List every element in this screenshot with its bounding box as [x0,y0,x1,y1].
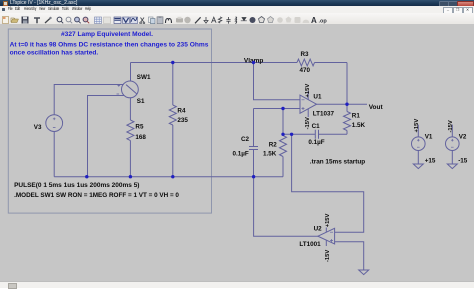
switch SW1 [117,74,151,105]
svg-text:V3: V3 [34,124,42,131]
wire SW1 to R5 [129,98,131,177]
icon zoom extents [83,17,89,23]
wire R2 leads [282,134,284,176]
capacitor C2 [233,136,259,158]
icon zoom in [57,17,63,23]
junction R4 top [171,61,174,64]
capacitor C1 [308,123,324,146]
comment text line 3 [10,50,99,57]
wire SW1 lower stub [88,96,125,177]
svg-text:PULSE(0 1 5ms 1us 1us 200ms 20: PULSE(0 1 5ms 1us 1us 200ms 200ms 5) [14,182,139,189]
junction rail SW1 stub [85,175,88,178]
icon move [259,16,265,22]
svg-text:Vout: Vout [369,104,384,111]
svg-text:+15V: +15V [305,84,311,98]
svg-text:R3: R3 [301,51,310,58]
svg-text:R5: R5 [135,124,144,131]
junction rail C2 [252,175,255,178]
svg-text:235: 235 [177,117,188,124]
icon diode tool [241,17,247,20]
wire C2 branch [253,109,255,177]
icon save [22,16,29,23]
svg-text:1.5K: 1.5K [352,122,366,129]
svg-text:C1: C1 [312,123,321,130]
op-amp U1 LT1037 [300,84,335,130]
icon mirror grayed [303,19,310,22]
resistor R4 [169,105,188,125]
icon label tool [212,17,217,23]
icon resistor tool [218,16,221,22]
svg-text:V1: V1 [425,134,433,141]
svg-text:LT1037: LT1037 [313,111,335,118]
ground below U2 [359,270,369,275]
icon inductor tool [236,17,237,24]
svg-text:U1: U1 [313,94,322,101]
wire V1 stubs [417,125,419,164]
node Vlamp [244,58,264,65]
directive .tran [310,159,365,166]
op-amp U2 LT1001 [299,213,334,262]
wire top rail [131,62,348,64]
icon new schematic [3,16,9,23]
svg-text:#327 Lamp Equivelent Model.: #327 Lamp Equivelent Model. [61,31,153,38]
voltage source V2 [446,120,468,165]
junction output node [345,103,348,106]
comment text title [61,31,153,38]
icon zoom out [66,17,72,23]
icon probe [45,16,52,22]
wire C1 net [283,133,347,135]
svg-text:At t=0 it has 98 Ohms DC resis: At t=0 it has 98 Ohms DC resistance then… [10,41,209,48]
icon copy [149,17,156,24]
voltage source V1 [412,119,436,165]
wire V3 bottom [53,132,55,177]
wire U2 output to C2 net [254,177,318,237]
svg-text:+15V: +15V [414,119,420,133]
svg-text:168: 168 [135,134,146,141]
icon paste [157,16,163,24]
wire V2 stubs [451,125,453,164]
node Vout [369,104,384,111]
wire R1 leads [346,104,348,134]
icon text tool [311,16,317,25]
svg-text:-15V: -15V [325,250,331,262]
wire bottom rail [54,176,283,178]
wire R4 branch [172,63,174,177]
svg-text:R2: R2 [269,142,278,149]
wire U2 noninverting to ground [335,242,364,270]
wire Vlamp to U1 inverting input [254,63,301,100]
svg-text:once oscillation has started.: once oscillation has started. [10,50,99,57]
svg-text:+15: +15 [425,158,436,165]
svg-text:SW1: SW1 [137,74,151,81]
icon waveform pane [114,17,121,24]
junction R2 top [281,133,284,136]
wire U1 output [317,103,368,105]
icon find [166,18,172,23]
ground below V2 [447,164,457,169]
wire U1 noninverting input [254,108,301,110]
svg-text:C2: C2 [241,136,250,143]
svg-text:+15V: +15V [325,213,331,227]
icon grayed sheet [104,17,111,24]
resistor R5 [127,120,147,141]
icon control panel hammer [34,17,40,23]
wire U1 noninv to C1 net [282,109,284,135]
icon print gray [176,16,183,22]
voltage source V3 [34,115,63,132]
svg-text:V2: V2 [459,134,467,141]
svg-text:470: 470 [300,67,311,74]
icon drag [268,16,274,22]
icon redo grayed [286,16,292,22]
icon waveform V [123,17,130,24]
icon zoom area [75,17,81,23]
directive PULSE [14,182,139,189]
icon capacitor tool [226,17,230,24]
svg-text:1.5K: 1.5K [263,151,277,158]
icon cut [140,17,145,23]
svg-text:0.1µF: 0.1µF [233,151,249,158]
directive .MODEL [14,192,179,199]
icon print2 gray [184,16,190,22]
ground below V1 [413,164,423,169]
junction U2 branch [290,133,293,136]
wire R3 to output node [346,63,348,105]
junction rail R4 [171,175,174,178]
svg-text:.MODEL SW1 SW RON = 1MEG ROFF: .MODEL SW1 SW RON = 1MEG ROFF = 1 VT = 0… [14,192,179,199]
wire to U2 inverting input [292,134,364,232]
svg-text:S1: S1 [137,98,145,105]
comment border box [8,29,211,213]
icon component [250,17,256,23]
junction rail R5 [129,175,132,178]
svg-text:R1: R1 [352,113,361,120]
svg-text:U2: U2 [314,226,323,233]
icon open [11,18,19,23]
svg-text:.tran 15ms startup: .tran 15ms startup [310,159,365,166]
icon waveform wave [131,17,138,24]
icon rotate grayed [295,17,301,23]
icon op directive [319,18,328,24]
wire SW1 top [130,63,132,82]
resistor R1 [344,112,366,131]
wire V3 to SW1 upper [54,85,123,115]
icon wire pencil [195,17,201,23]
comment text line 2 [10,41,209,48]
svg-text:-15: -15 [458,158,468,165]
svg-text:0.1µF: 0.1µF [308,139,324,146]
svg-text:LT1001: LT1001 [299,241,321,248]
icon ground tool [204,17,208,23]
icon undo grayed [277,17,283,23]
svg-text:R4: R4 [177,108,186,115]
svg-text:-15V: -15V [305,117,311,129]
junction U1 noninv branch [281,107,284,110]
resistor R3 [297,51,315,74]
icon spreadsheet [95,17,102,24]
resistor R2 [263,136,287,158]
svg-text:-15V: -15V [448,120,454,132]
